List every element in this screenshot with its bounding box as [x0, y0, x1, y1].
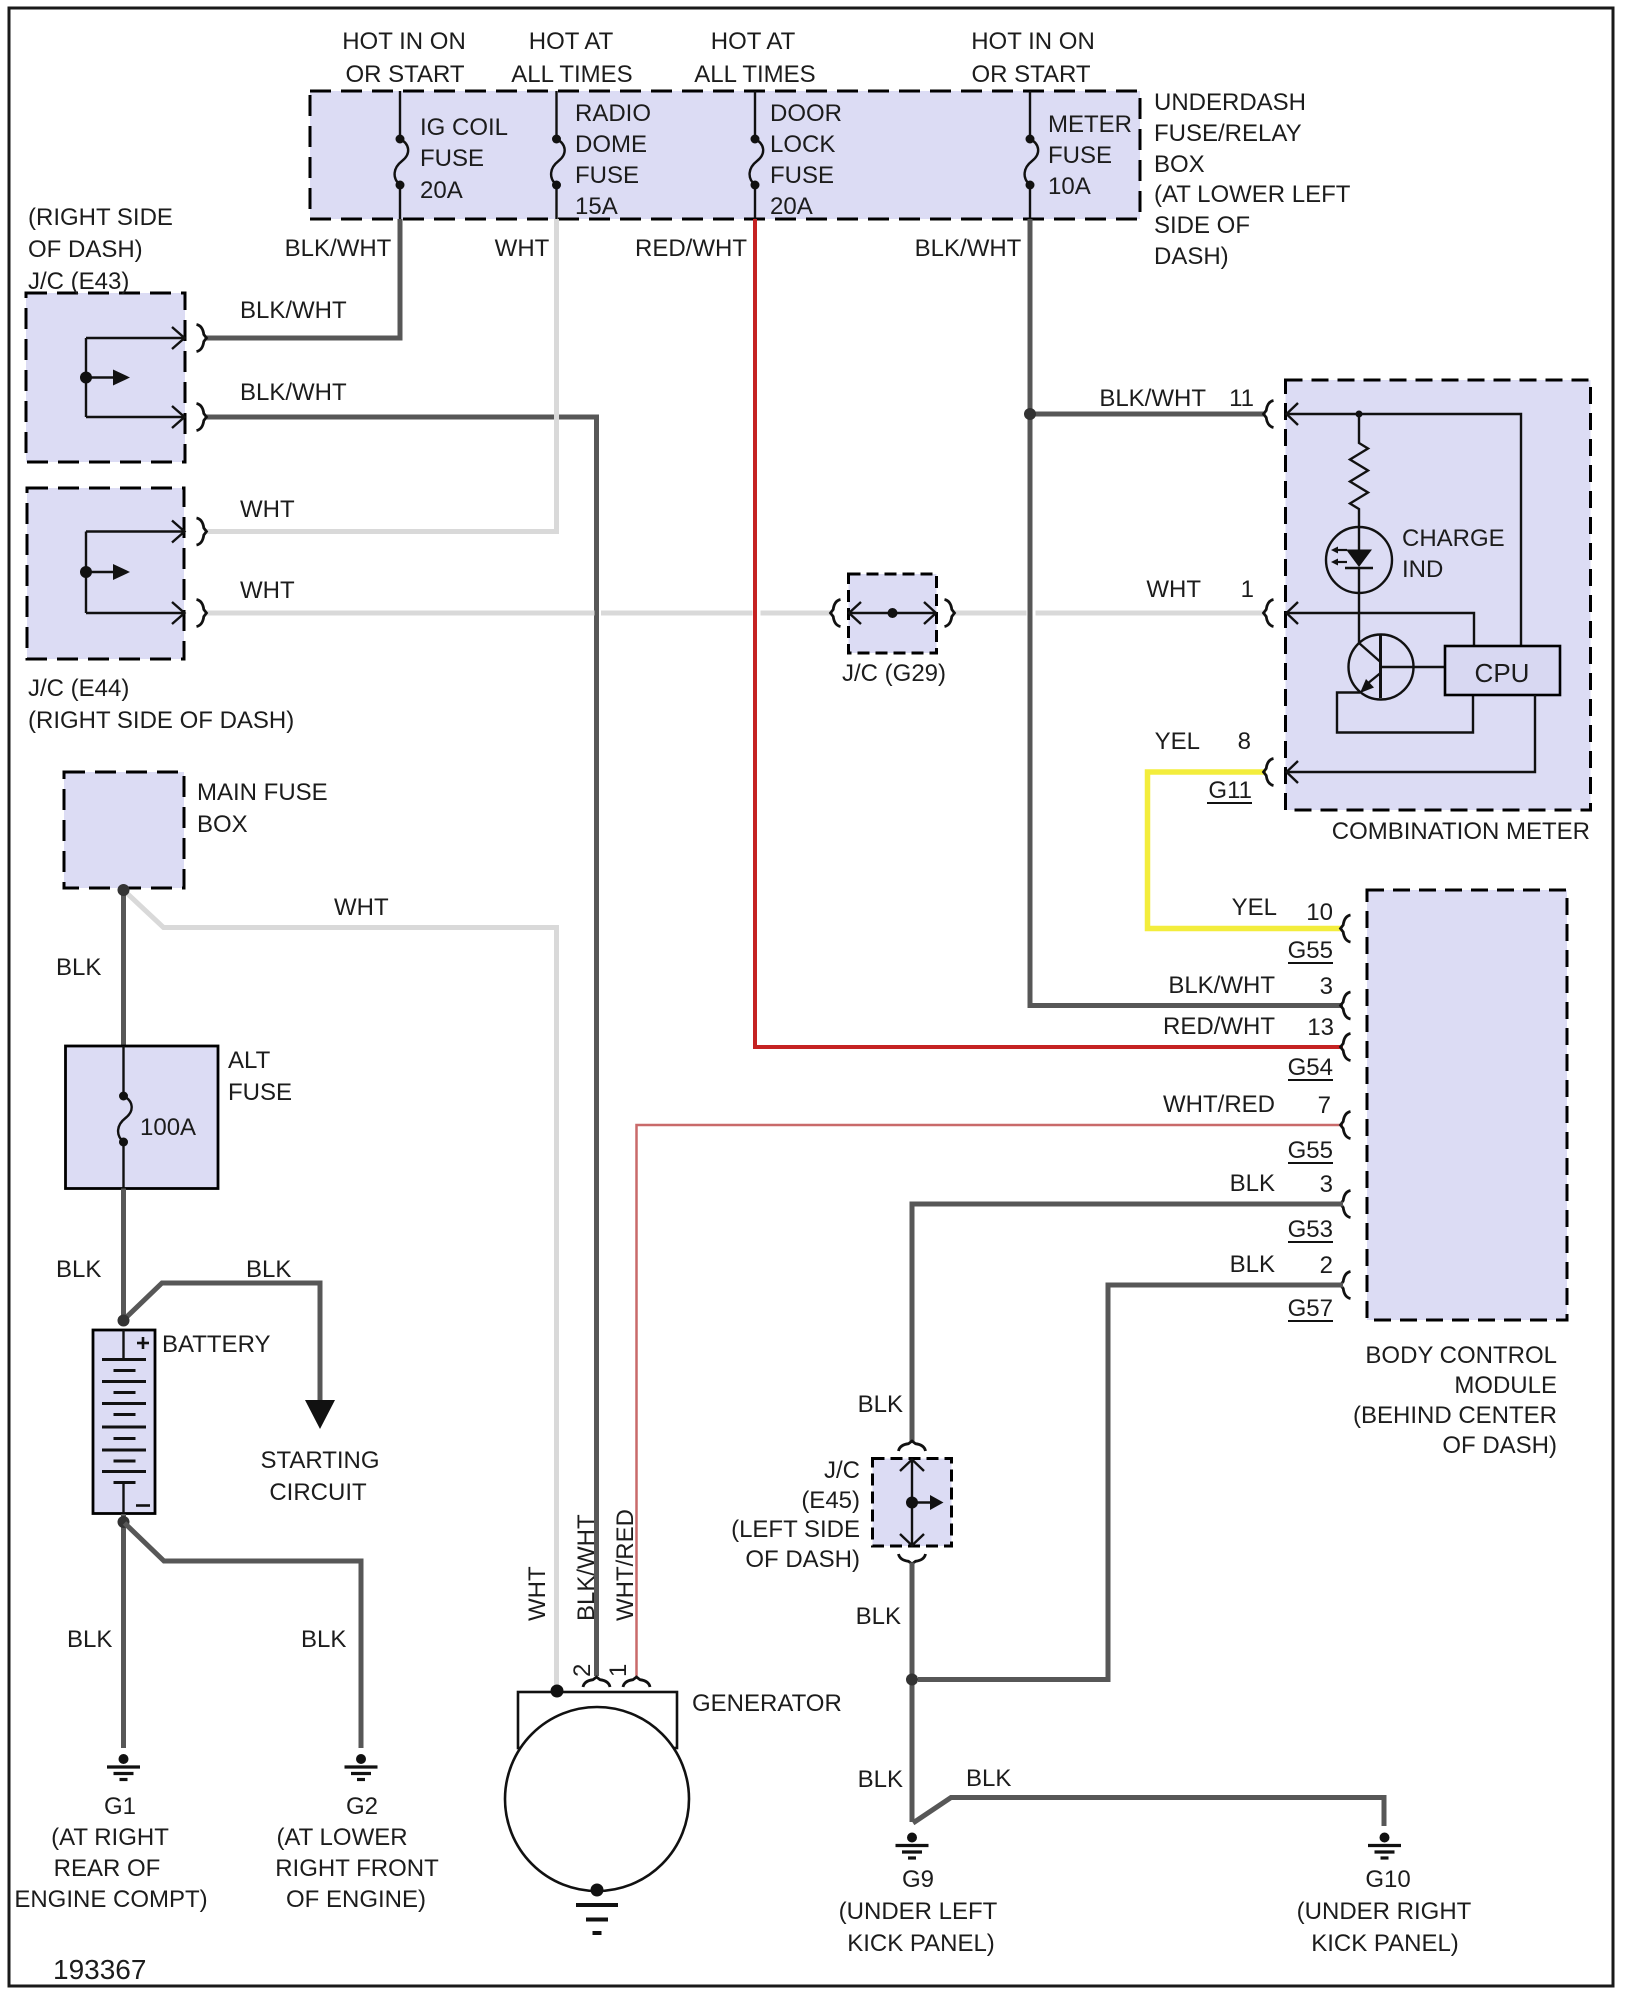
fuse IG COIL 20A	[395, 91, 508, 219]
svg-text:13: 13	[1307, 1014, 1334, 1041]
svg-text:(UNDER RIGHT: (UNDER RIGHT	[1297, 1898, 1472, 1925]
svg-text:G55: G55	[1288, 1137, 1333, 1164]
ground G10	[1368, 1833, 1401, 1859]
svg-text:BLK: BLK	[856, 1603, 901, 1630]
svg-text:BATTERY: BATTERY	[162, 1331, 270, 1358]
svg-text:G53: G53	[1288, 1216, 1333, 1243]
BCM pin 3 BLK	[1341, 1191, 1351, 1218]
svg-text:RED/WHT: RED/WHT	[1163, 1013, 1275, 1040]
svg-text:FUSE: FUSE	[575, 162, 639, 189]
svg-text:FUSE/RELAY: FUSE/RELAY	[1154, 120, 1302, 147]
svg-text:BLK: BLK	[56, 954, 101, 981]
wire BLK/WHT: meter fuse down to BCM pin 3	[1030, 219, 1343, 1006]
svg-text:J/C (G29): J/C (G29)	[842, 660, 946, 687]
svg-text:IND: IND	[1402, 556, 1443, 583]
svg-text:1: 1	[605, 1664, 632, 1677]
svg-text:GENERATOR: GENERATOR	[692, 1690, 842, 1717]
J/C E43 internal splice arrows	[86, 327, 185, 428]
svg-text:BLK: BLK	[1230, 1170, 1275, 1197]
fuse ALT 100A	[118, 1046, 196, 1189]
svg-text:(AT RIGHT: (AT RIGHT	[51, 1824, 169, 1851]
svg-text:FUSE: FUSE	[420, 145, 484, 172]
wire BLK: BCM pin2 down to ground junction	[918, 1285, 1343, 1680]
fuse RADIO DOME 15A	[551, 91, 651, 220]
connector brace G29 right	[945, 600, 955, 627]
ground G1	[107, 1754, 140, 1780]
wire YEL: meter pin 8 to BCM pin 10	[1148, 772, 1343, 929]
ground G2	[345, 1754, 378, 1780]
svg-text:BLK: BLK	[301, 1626, 346, 1653]
wire BLK/WHT: J/C E43 pin 2 down to generator terminal 2	[206, 417, 597, 1676]
meter pin 1 entry	[1264, 600, 1274, 627]
svg-text:(UNDER LEFT: (UNDER LEFT	[839, 1898, 998, 1925]
wire BLK: branch to G2	[125, 1523, 362, 1748]
J/C E44 internal splice arrows	[86, 521, 185, 625]
svg-text:BODY CONTROL: BODY CONTROL	[1365, 1342, 1557, 1369]
svg-text:WHT/RED: WHT/RED	[1163, 1091, 1275, 1118]
svg-text:MAIN FUSE: MAIN FUSE	[197, 779, 328, 806]
junction dot resistor top	[1356, 411, 1363, 418]
svg-text:(BEHIND CENTER: (BEHIND CENTER	[1353, 1402, 1557, 1429]
svg-text:RED/WHT: RED/WHT	[635, 235, 747, 262]
wire BLK: branch to G10	[913, 1798, 1384, 1827]
wire BLK: ALT fuse to battery	[121, 1189, 126, 1322]
svg-text:(AT LOWER: (AT LOWER	[276, 1824, 407, 1851]
svg-text:11: 11	[1229, 385, 1254, 412]
svg-text:BLK: BLK	[56, 1256, 101, 1283]
svg-text:CHARGE: CHARGE	[1402, 525, 1505, 552]
svg-text:WHT/RED: WHT/RED	[612, 1509, 639, 1621]
generator terminal 1 connector	[623, 1677, 650, 1687]
svg-text:BLK: BLK	[1230, 1251, 1275, 1278]
svg-text:BLK: BLK	[246, 1256, 291, 1283]
transistor emitter loop to CPU	[1337, 693, 1473, 733]
svg-text:BOX: BOX	[1154, 151, 1205, 178]
svg-text:BLK: BLK	[67, 1626, 112, 1653]
svg-text:20A: 20A	[770, 193, 813, 220]
svg-text:METER: METER	[1048, 111, 1132, 138]
meter pin 8 entry	[1264, 759, 1274, 786]
svg-text:(E45): (E45)	[801, 1487, 860, 1514]
svg-text:FUSE: FUSE	[228, 1079, 292, 1106]
svg-text:G1: G1	[104, 1793, 136, 1820]
BCM pin 13 RED/WHT	[1341, 1034, 1351, 1061]
svg-text:ALL TIMES: ALL TIMES	[694, 61, 815, 88]
CPU box	[1445, 646, 1560, 695]
transistor	[1349, 635, 1414, 700]
svg-text:WHT: WHT	[1146, 576, 1201, 603]
junction dot below main fuse box	[118, 884, 130, 896]
J/C E45 internal splice	[900, 1459, 931, 1546]
svg-text:OR START: OR START	[345, 61, 464, 88]
junction dot battery negative	[118, 1516, 130, 1528]
wire BLK: branch to starting circuit	[125, 1283, 321, 1400]
J/C E45 connector brace bottom	[899, 1554, 926, 1564]
J/C E45 connector brace top	[899, 1441, 926, 1451]
svg-text:OR START: OR START	[971, 61, 1090, 88]
wire BLK: battery negative to G1	[121, 1514, 126, 1748]
svg-text:MODULE: MODULE	[1454, 1372, 1557, 1399]
svg-text:20A: 20A	[420, 177, 463, 204]
wire BLK/WHT: branch to combination meter pin 11	[1030, 412, 1266, 417]
wire BLK: BCM pin3 to J/C E45	[912, 1204, 1343, 1443]
generator body	[518, 1692, 677, 1748]
svg-text:BLK/WHT: BLK/WHT	[1099, 385, 1206, 412]
wire WHT: radio dome fuse down to J/C E44 pin 1	[206, 219, 557, 532]
svg-text:3: 3	[1320, 973, 1333, 1000]
BCM box	[1367, 890, 1567, 1320]
J/C G29 box	[849, 574, 937, 653]
wire WHT: J/C E44 pin 2 to J/C G29 and meter pin 1	[206, 611, 595, 616]
svg-text:3: 3	[1320, 1171, 1333, 1198]
meter internal: pin1 rail to CPU	[1287, 613, 1475, 646]
svg-text:YEL: YEL	[1155, 728, 1200, 755]
BCM pin 7 WHT/RED	[1341, 1112, 1351, 1139]
junction dot ground net	[906, 1674, 918, 1686]
arrow to starting circuit	[305, 1400, 335, 1429]
svg-text:J/C (E43): J/C (E43)	[28, 268, 129, 295]
svg-text:REAR OF: REAR OF	[54, 1855, 161, 1882]
connector brace E43 pin 1	[197, 325, 207, 352]
svg-text:BLK: BLK	[858, 1391, 903, 1418]
svg-text:OF DASH): OF DASH)	[745, 1546, 860, 1573]
svg-text:BLK/WHT: BLK/WHT	[1168, 972, 1275, 999]
svg-text:UNDERDASH: UNDERDASH	[1154, 89, 1306, 116]
svg-text:10: 10	[1306, 899, 1333, 926]
BCM pin 10 YEL	[1341, 915, 1351, 942]
ALT fuse box	[66, 1046, 219, 1189]
J/C E43 box	[26, 293, 185, 462]
wire WHT: main fuse box to generator WHT terminal	[124, 890, 557, 1690]
svg-text:2: 2	[1320, 1252, 1333, 1279]
LED emission arrows	[1331, 547, 1347, 566]
meter internal: pin8 rail to CPU	[1287, 695, 1536, 772]
svg-text:BLK/WHT: BLK/WHT	[573, 1514, 600, 1621]
svg-text:RIGHT FRONT: RIGHT FRONT	[275, 1855, 439, 1882]
connector brace E44 pin 2	[197, 600, 207, 627]
svg-text:DASH): DASH)	[1154, 243, 1229, 270]
svg-text:ALT: ALT	[228, 1047, 271, 1074]
svg-text:RADIO: RADIO	[575, 100, 651, 127]
svg-text:BLK: BLK	[858, 1766, 903, 1793]
svg-text:BLK/WHT: BLK/WHT	[240, 379, 347, 406]
svg-text:WHT: WHT	[495, 235, 550, 262]
BCM pin 3 BLK/WHT	[1341, 992, 1351, 1019]
battery	[93, 1330, 155, 1514]
svg-text:HOT IN ON: HOT IN ON	[971, 28, 1095, 55]
svg-text:WHT: WHT	[524, 1566, 551, 1621]
svg-text:(LEFT SIDE: (LEFT SIDE	[731, 1516, 860, 1543]
ground G9	[896, 1833, 929, 1859]
svg-text:J/C: J/C	[824, 1457, 860, 1484]
svg-text:G10: G10	[1365, 1866, 1410, 1893]
J/C G29 internal splice	[849, 602, 937, 624]
svg-text:STARTING: STARTING	[260, 1447, 379, 1474]
svg-text:OF DASH): OF DASH)	[28, 236, 143, 263]
svg-text:J/C (E44): J/C (E44)	[28, 675, 129, 702]
svg-text:SIDE OF: SIDE OF	[1154, 212, 1250, 239]
generator WHT terminal dot	[551, 1685, 564, 1698]
LED charge indicator	[1326, 527, 1392, 593]
connector brace E43 pin 2	[197, 404, 207, 431]
svg-text:2: 2	[569, 1664, 596, 1677]
svg-text:KICK PANEL): KICK PANEL)	[1311, 1930, 1459, 1957]
svg-text:G57: G57	[1288, 1295, 1333, 1322]
svg-text:HOT AT: HOT AT	[529, 28, 614, 55]
svg-text:15A: 15A	[575, 193, 618, 220]
wire BLK: E45 down to junction	[910, 1563, 915, 1823]
svg-text:LOCK: LOCK	[770, 131, 835, 158]
BCM pin 2 BLK	[1341, 1272, 1351, 1299]
combination meter box	[1286, 380, 1591, 810]
wire RED: door lock fuse down and right to BCM pin 13	[755, 219, 1343, 1047]
connector brace G29 left	[831, 600, 841, 627]
svg-text:BLK: BLK	[966, 1765, 1011, 1792]
svg-text:BLK/WHT: BLK/WHT	[915, 235, 1022, 262]
generator terminal 2 connector	[583, 1677, 610, 1687]
wire BLK: main fuse box to ALT fuse	[121, 890, 126, 1046]
svg-text:WHT: WHT	[240, 496, 295, 523]
svg-text:(AT LOWER LEFT: (AT LOWER LEFT	[1154, 181, 1351, 208]
svg-text:BOX: BOX	[197, 811, 248, 838]
svg-text:HOT IN ON: HOT IN ON	[342, 28, 466, 55]
junction dot (meter fuse wire / pin 11 branch)	[1024, 408, 1036, 420]
svg-text:G11: G11	[1208, 777, 1252, 804]
resistor	[1350, 414, 1368, 527]
underdash fuse/relay box	[310, 91, 1140, 219]
J/C E45 box	[873, 1459, 952, 1547]
svg-text:(RIGHT SIDE OF DASH): (RIGHT SIDE OF DASH)	[28, 707, 294, 734]
wire BLK/WHT: IG coil fuse to J/C E43 pin 1	[206, 219, 400, 338]
svg-text:DOME: DOME	[575, 131, 647, 158]
main fuse box	[64, 772, 184, 888]
svg-text:BLK/WHT: BLK/WHT	[285, 235, 392, 262]
svg-text:G55: G55	[1288, 937, 1333, 964]
svg-text:CPU: CPU	[1475, 658, 1530, 688]
svg-text:G9: G9	[902, 1866, 934, 1893]
meter pin 11 entry	[1264, 401, 1274, 428]
svg-text:HOT AT: HOT AT	[711, 28, 796, 55]
svg-text:KICK PANEL): KICK PANEL)	[847, 1930, 995, 1957]
connector brace E44 pin 1	[197, 518, 207, 545]
svg-text:BLK/WHT: BLK/WHT	[240, 297, 347, 324]
svg-text:8: 8	[1238, 728, 1251, 755]
junction dot battery positive	[118, 1315, 130, 1327]
svg-text:WHT: WHT	[240, 577, 295, 604]
J/C E44 box	[27, 488, 184, 659]
svg-text:100A: 100A	[140, 1114, 196, 1141]
fuse METER 10A	[1025, 91, 1132, 219]
svg-text:G54: G54	[1288, 1054, 1333, 1081]
svg-text:IG COIL: IG COIL	[420, 114, 508, 141]
svg-text:10A: 10A	[1048, 173, 1091, 200]
svg-text:1: 1	[1241, 576, 1254, 603]
svg-text:7: 7	[1318, 1092, 1331, 1119]
svg-text:FUSE: FUSE	[1048, 142, 1112, 169]
wire WHT/RED: generator terminal 1 to BCM pin 7	[637, 1125, 1344, 1676]
svg-text:ALL TIMES: ALL TIMES	[511, 61, 632, 88]
svg-text:OF DASH): OF DASH)	[1442, 1432, 1557, 1459]
svg-text:WHT: WHT	[334, 894, 389, 921]
svg-text:FUSE: FUSE	[770, 162, 834, 189]
generator ground	[576, 1884, 618, 1934]
svg-text:DOOR: DOOR	[770, 100, 842, 127]
svg-text:CIRCUIT: CIRCUIT	[269, 1479, 367, 1506]
svg-text:G2: G2	[346, 1793, 378, 1820]
svg-text:193367: 193367	[53, 1954, 146, 1985]
svg-text:COMBINATION METER: COMBINATION METER	[1332, 818, 1590, 845]
svg-text:ENGINE COMPT): ENGINE COMPT)	[14, 1886, 207, 1913]
svg-text:(RIGHT SIDE: (RIGHT SIDE	[28, 204, 173, 231]
svg-text:OF ENGINE): OF ENGINE)	[286, 1886, 426, 1913]
fuse DOOR LOCK 20A	[750, 91, 842, 220]
meter internal: pin11 rail to CPU	[1287, 414, 1522, 646]
svg-text:YEL: YEL	[1232, 894, 1277, 921]
